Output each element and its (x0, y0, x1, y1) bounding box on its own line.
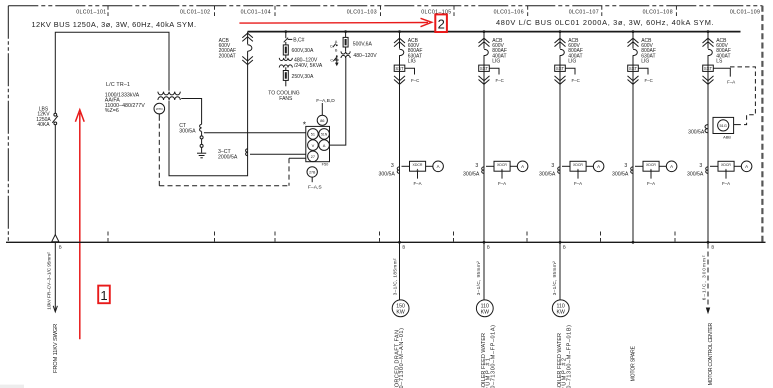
svg-text:480V L/C BUS 0LC01 2000A,: 480V L/C BUS 0LC01 2000A, 3ø, 3W, 60Hz, … (496, 18, 714, 27)
node B terminal triangle at 12KV cable (52, 235, 59, 242)
svg-text:/240V, 5KVA: /240V, 5KVA (294, 63, 323, 69)
svg-text:FROM 11KV SWGR: FROM 11KV SWGR (53, 324, 59, 373)
device WTD winding temperature (154, 103, 165, 114)
switch ground arrow (336, 57, 338, 64)
relay 27B (307, 167, 317, 177)
label feeder 3 ACB (568, 38, 583, 65)
label feeder 5 ACB (716, 38, 731, 65)
red callout box 1 (98, 286, 110, 304)
wire feeder 3 load drop (559, 242, 561, 300)
bus 480V L/C bus 0LC01 (248, 31, 741, 33)
svg-text:LIG: LIG (408, 59, 416, 65)
breaker ACB feeder 1 (394, 38, 405, 84)
drawing frame top border (8, 5, 762, 7)
svg-text:B: B (711, 245, 714, 250)
motor 150 KW forced draft fan (392, 300, 409, 317)
svg-text:2000AT: 2000AT (219, 53, 236, 59)
wire 12KV bus and transformer primary drop (55, 32, 169, 113)
svg-text:300/5A: 300/5A (688, 129, 705, 135)
red callout box 2 (435, 14, 447, 32)
CT ground 51G 300/5A (705, 125, 708, 133)
transformer PT 480-120V (341, 51, 350, 58)
svg-text:40KA: 40KA (37, 122, 50, 128)
svg-text:86: 86 (320, 118, 325, 123)
svg-text:F–C: F–C (411, 78, 419, 83)
svg-text:3–1/C, 95mm²: 3–1/C, 95mm² (552, 261, 557, 295)
node tap cooling fans (284, 30, 287, 33)
wire WTD dashed boundary down (158, 124, 160, 186)
svg-text:(0–71300–M–FP–01B): (0–71300–M–FP–01B) (567, 325, 573, 388)
wire (285, 80, 287, 86)
fuse 600V,30A (283, 45, 288, 55)
wire LBS to rail (54, 125, 56, 235)
CT metering feeder 4 (612, 161, 677, 186)
wire WTD tail solid (158, 114, 160, 121)
node tap feeder 5 (707, 30, 710, 33)
svg-text:F–C: F–C (496, 78, 504, 83)
svg-text:MOTOR SPARE: MOTOR SPARE (631, 345, 637, 381)
svg-text:3–1/C, 95mm²: 3–1/C, 95mm² (476, 261, 481, 295)
node rail junction feeder 4 (632, 241, 635, 244)
drawing frame left border (7, 6, 9, 243)
wire incomer breaker line (247, 32, 249, 65)
svg-text:LIG: LIG (568, 59, 576, 65)
wire secondary main run to incomer (169, 65, 248, 176)
svg-text:LIG: LIG (492, 59, 500, 65)
node tap feeder 4 (632, 30, 635, 33)
svg-text:27B: 27B (309, 171, 316, 175)
relay box multifunction (306, 126, 330, 161)
wire 27B tail (311, 177, 313, 182)
wire feeder 1 (399, 32, 401, 243)
title block fragment bottom-left (0, 385, 24, 388)
svg-text:ABB: ABB (723, 134, 731, 139)
svg-text:F–A: F–A (727, 80, 735, 85)
svg-text:A: A (323, 143, 326, 148)
svg-text:B,C#: B,C# (293, 37, 304, 43)
relay 27 (308, 151, 319, 162)
breaker incomer ACB 2000AF labels (219, 38, 237, 60)
transformer TR-1 labels (105, 82, 145, 114)
arrow MCC cable end (706, 308, 710, 315)
LBS labels (36, 107, 51, 129)
zone tick marks top (108, 6, 676, 16)
node tap PT branch (344, 30, 347, 33)
label feeder 4 ACB (641, 38, 656, 65)
wire feeder 3 (559, 32, 561, 243)
wire dashed trip loop (730, 67, 755, 125)
svg-text:(0–71300–M–FP–01A): (0–71300–M–FP–01A) (491, 325, 497, 388)
svg-text:10kV FR–CV–3–1/C 95mm²: 10kV FR–CV–3–1/C 95mm² (46, 252, 51, 310)
switch B,C# (284, 38, 288, 43)
wire (285, 67, 287, 70)
node rail junction feeder 5 (707, 241, 710, 244)
wire feeder 5 (707, 32, 709, 243)
bottom rail line (6, 241, 766, 243)
svg-text:600V,30A: 600V,30A (292, 48, 315, 54)
transformer TR-1 windings (158, 92, 180, 100)
svg-text:0LC01–103: 0LC01–103 (347, 10, 377, 16)
red arrow 2 (239, 18, 431, 26)
relay 51 (308, 129, 319, 140)
svg-text:0LC01–109: 0LC01–109 (730, 10, 760, 16)
svg-text:300/5A: 300/5A (179, 129, 196, 135)
wire relay A to PT secondary (330, 58, 346, 146)
svg-text:LS: LS (716, 59, 723, 65)
wire 3-CT secondary to relays (250, 153, 306, 155)
svg-text:C: C (330, 45, 333, 49)
svg-text:3–1/C, 185mm²: 3–1/C, 185mm² (393, 258, 398, 295)
svg-text:1: 1 (100, 288, 107, 303)
svg-text:250V,30A: 250V,30A (292, 74, 315, 80)
CT incomer 3-CT 2000/5A (246, 149, 248, 156)
svg-text:F–C: F–C (572, 78, 580, 83)
wire feeder 4 (632, 32, 634, 243)
svg-text:0LC01–108: 0LC01–108 (643, 10, 673, 16)
node tap feeder 1 (398, 30, 401, 33)
ground symbol neutral (197, 153, 206, 158)
relay 51G box (713, 117, 734, 133)
switch LBS (52, 113, 58, 125)
node tap feeder 2 (483, 30, 486, 33)
breaker ACB feeder 5 (703, 38, 714, 84)
CT metering feeder 3 (539, 161, 604, 186)
svg-text:F50: F50 (322, 162, 330, 167)
motor 110 KW BFW pump 1 (476, 300, 493, 317)
svg-text:KW: KW (481, 309, 489, 315)
wire SST pigtail feeder 5 (713, 68, 730, 76)
wire dashed boundary riser (288, 158, 290, 186)
label feeder 1 ACB (408, 38, 423, 65)
wire (345, 47, 347, 51)
svg-text:(0–71300–M–AN–01): (0–71300–M–AN–01) (399, 328, 405, 388)
svg-text:V: V (312, 143, 315, 148)
wire (285, 42, 287, 45)
node tap feeder 3 (559, 30, 562, 33)
svg-text:KW: KW (396, 309, 404, 315)
svg-text:0LC01–102: 0LC01–102 (180, 10, 210, 16)
wire SST pigtail feeder 3 (565, 68, 575, 74)
svg-text:LIG: LIG (641, 59, 649, 65)
relay A (319, 140, 330, 151)
svg-text:B: B (563, 245, 566, 250)
breaker incomer ACB drawout symbol (242, 33, 253, 41)
svg-text:WTD: WTD (156, 107, 164, 111)
node rail junction feeder 3 (559, 241, 562, 244)
relay V (308, 140, 319, 151)
wire stub to relay box (289, 157, 306, 159)
motor 110 KW BFW pump 2 (552, 300, 569, 317)
arrow incoming cable end (53, 306, 57, 312)
wire to 86 (321, 103, 323, 115)
wire CT secondary to relay 51N (204, 132, 306, 134)
wire (285, 55, 287, 59)
svg-text:F–A,S: F–A,S (308, 185, 322, 191)
svg-text:500V,6A: 500V,6A (353, 41, 373, 47)
node rail junction feeder 1 (398, 241, 401, 244)
svg-text:B: B (402, 245, 405, 250)
CT metering feeder 5 (687, 161, 752, 186)
label feeder 2 ACB (492, 38, 507, 65)
svg-text:2: 2 (438, 17, 445, 32)
svg-text:51N: 51N (321, 132, 328, 136)
breaker ACB feeder 3 (555, 38, 566, 84)
wire MCC dashed drop (707, 244, 709, 309)
svg-text:27: 27 (311, 155, 315, 159)
red arrow 1 (75, 110, 84, 339)
wire 51G to dashed loop (734, 124, 741, 126)
wire feeder 2 load drop (483, 242, 485, 300)
svg-text:F–A,B,D: F–A,B,D (316, 98, 335, 104)
wire transformer neutral (181, 99, 201, 125)
svg-text:F–C: F–C (645, 78, 653, 83)
CT metering feeder 2 (463, 161, 528, 186)
wire feeder 1 load drop (399, 242, 401, 300)
wire SST pigtail feeder 2 (489, 68, 499, 74)
wire neutral links to ground (201, 132, 203, 136)
wire SST pigtail feeder 4 (638, 68, 648, 74)
svg-text:0LC01–106: 0LC01–106 (494, 10, 524, 16)
svg-text:B: B (59, 245, 62, 250)
wire 12KV incoming cable below rail (54, 243, 56, 311)
svg-text:2000/5A: 2000/5A (218, 154, 238, 160)
fuse 500V,6A (343, 37, 348, 47)
fuse 250V,30A (283, 71, 288, 81)
svg-text:B: B (487, 245, 490, 250)
transformer cooling 480-120/240V (279, 58, 292, 68)
relay 86 (317, 115, 327, 125)
drawing frame right border (761, 6, 763, 243)
wire SST pigtail feeder 1 (405, 68, 415, 74)
svg-text:0LC01–107: 0LC01–107 (569, 10, 599, 16)
CT metering feeder 1 (378, 161, 443, 186)
relay 51N (319, 129, 330, 140)
svg-text:51G: 51G (720, 123, 727, 128)
svg-text:L/C TR–1: L/C TR–1 (106, 82, 130, 88)
svg-text:0LC01–104: 0LC01–104 (241, 10, 271, 16)
wire tap down (285, 32, 287, 39)
wire feeder 2 (483, 32, 485, 243)
zone labels (76, 10, 760, 16)
svg-text:12KV BUS 1250A, 3ø, 3W, 6: 12KV BUS 1250A, 3ø, 3W, 60Hz, 40kA SYM. (32, 20, 197, 29)
svg-text:KW: KW (557, 309, 565, 315)
svg-text:480–120V: 480–120V (353, 53, 377, 59)
wire tap down (345, 32, 347, 38)
svg-text:C: C (330, 59, 333, 63)
breaker ACB feeder 4 (628, 38, 639, 84)
svg-text:%Z=6: %Z=6 (105, 108, 119, 114)
svg-text:B: B (335, 49, 338, 53)
CT neutral 300/5A (200, 124, 202, 131)
node rail junction feeder 2 (483, 241, 486, 244)
rail zone ticks (108, 232, 675, 242)
breaker ACB feeder 2 (479, 38, 490, 84)
svg-text:MOTOR CONTROL CENTER: MOTOR CONTROL CENTER (708, 322, 714, 385)
switch PT transfer A B C (330, 40, 338, 63)
svg-text:51: 51 (311, 133, 315, 137)
svg-text:6–1/C, 300mm²: 6–1/C, 300mm² (701, 255, 706, 300)
svg-text:FANS: FANS (279, 96, 293, 102)
svg-text:0LC01–101: 0LC01–101 (76, 10, 106, 16)
wire dashed boundary bottom (159, 185, 289, 187)
